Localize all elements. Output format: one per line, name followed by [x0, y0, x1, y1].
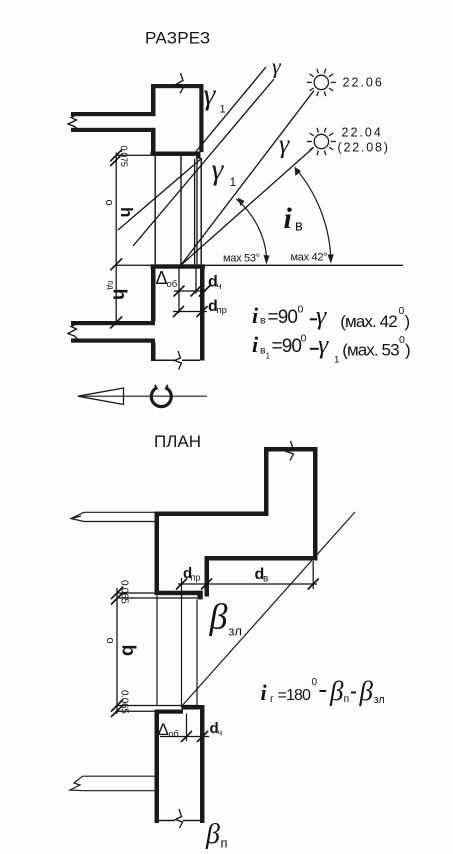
- svg-text:1: 1: [334, 355, 339, 366]
- svg-text:ПЛАН: ПЛАН: [154, 432, 201, 451]
- svg-text:0.065: 0.065: [119, 690, 130, 714]
- svg-text:γ: γ: [204, 78, 217, 111]
- svg-text:в: в: [295, 219, 303, 235]
- svg-text:Δ: Δ: [158, 720, 169, 739]
- svg-text:0: 0: [301, 333, 307, 345]
- svg-text:(22.08): (22.08): [338, 141, 390, 155]
- svg-text:γ: γ: [272, 54, 282, 79]
- svg-text:0: 0: [312, 677, 318, 688]
- svg-text:β: β: [209, 597, 228, 637]
- svg-text:зл: зл: [374, 694, 385, 706]
- svg-text:β: β: [329, 676, 344, 706]
- svg-text:): ): [405, 341, 411, 360]
- svg-text:=90: =90: [268, 307, 298, 328]
- svg-text:h: h: [109, 289, 130, 301]
- svg-text:h: h: [117, 207, 136, 217]
- svg-text:i: i: [252, 303, 259, 328]
- svg-text:зл: зл: [229, 624, 242, 639]
- svg-text:п: п: [221, 836, 228, 851]
- svg-text:(мах. 42: (мах. 42: [340, 312, 397, 331]
- svg-text:): ): [405, 312, 411, 331]
- svg-text:РАЗРЕЗ: РАЗРЕЗ: [145, 29, 210, 48]
- svg-text:γ: γ: [318, 330, 329, 359]
- svg-text:в: в: [260, 315, 266, 327]
- svg-text:β: β: [359, 676, 374, 706]
- svg-text:ч: ч: [217, 281, 222, 292]
- svg-text:п: п: [344, 693, 350, 705]
- svg-text:γ: γ: [316, 301, 327, 330]
- svg-text:=180: =180: [278, 687, 311, 704]
- svg-text:1: 1: [220, 104, 226, 116]
- svg-text:о: о: [104, 638, 116, 644]
- svg-text:г: г: [270, 693, 274, 705]
- svg-text:о: о: [103, 200, 115, 206]
- svg-text:0: 0: [298, 304, 304, 316]
- svg-text:β: β: [205, 819, 220, 850]
- svg-text:22.06: 22.06: [343, 76, 384, 90]
- svg-text:0.065: 0.065: [119, 580, 130, 604]
- svg-text:пр: пр: [191, 573, 201, 583]
- svg-text:i: i: [284, 202, 293, 235]
- svg-text:1: 1: [266, 352, 271, 361]
- svg-text:0.075: 0.075: [119, 146, 129, 167]
- svg-text:1: 1: [230, 175, 237, 189]
- svg-text:мах 53°: мах 53°: [223, 253, 260, 265]
- svg-text:об: об: [169, 729, 179, 739]
- svg-text:ч: ч: [218, 728, 223, 738]
- svg-text:γ: γ: [279, 130, 290, 159]
- svg-text:i: i: [261, 680, 268, 705]
- svg-text:мах 42°: мах 42°: [291, 252, 328, 264]
- svg-text:=90: =90: [272, 336, 302, 357]
- svg-text:b: b: [117, 645, 138, 657]
- svg-text:пр: пр: [217, 305, 227, 316]
- svg-text:22.04: 22.04: [342, 126, 383, 140]
- svg-text:γ: γ: [212, 153, 225, 186]
- svg-text:(мах. 53: (мах. 53: [342, 341, 399, 360]
- svg-text:в: в: [263, 574, 268, 585]
- svg-text:об: об: [167, 279, 178, 290]
- svg-text:i: i: [252, 332, 259, 357]
